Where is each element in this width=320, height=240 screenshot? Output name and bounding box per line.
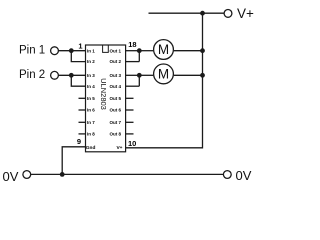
wire out3 (126, 74, 140, 76)
svg-text:Out 7: Out 7 (109, 120, 121, 125)
svg-text:In 4: In 4 (87, 84, 95, 89)
svg-text:Pin 1: Pin 1 (19, 45, 45, 57)
terminal Pin 1 (51, 47, 59, 55)
motor M2 (154, 64, 174, 84)
svg-text:Out 3: Out 3 (109, 73, 121, 78)
svg-text:M: M (158, 67, 169, 82)
svg-text:In 7: In 7 (87, 120, 95, 125)
wire stub out7 (126, 121, 134, 123)
terminal Pin 2 (51, 71, 59, 79)
svg-text:1: 1 (78, 42, 82, 51)
wire stub in8 (79, 133, 86, 135)
node junction motor2 rail (200, 73, 205, 78)
wire 0V rail (31, 173, 224, 175)
svg-text:ULN2803: ULN2803 (99, 78, 108, 110)
wire out3 bar to motor2 (139, 74, 153, 76)
svg-text:Out 4: Out 4 (109, 84, 121, 89)
svg-text:V+: V+ (237, 6, 254, 21)
svg-text:In 6: In 6 (87, 108, 95, 113)
svg-text:Out 6: Out 6 (109, 108, 121, 113)
svg-text:In 2: In 2 (87, 59, 95, 64)
wire out4 (126, 85, 140, 87)
svg-text:In 5: In 5 (87, 96, 95, 101)
wire bar out1-out2 (138, 51, 140, 62)
wire stub in6 (79, 109, 86, 111)
svg-text:Out 2: Out 2 (109, 59, 121, 64)
svg-text:Gnd: Gnd (86, 145, 96, 151)
svg-text:10: 10 (128, 139, 136, 148)
wire V+ rail vertical (126, 13, 203, 148)
svg-text:In 1: In 1 (87, 48, 95, 53)
wire out1 (126, 50, 140, 52)
node junction out3 (137, 73, 142, 78)
svg-text:V+: V+ (116, 145, 122, 151)
node junction pin2 (69, 73, 74, 78)
motor M1 (154, 40, 174, 60)
svg-text:Pin 2: Pin 2 (19, 69, 45, 81)
svg-text:18: 18 (128, 40, 136, 49)
svg-text:Out 1: Out 1 (109, 48, 121, 53)
wire gnd to 0V rail (62, 147, 85, 175)
node junction motor1 rail (200, 48, 205, 53)
svg-text:0V: 0V (3, 169, 19, 184)
wire stub out6 (126, 109, 134, 111)
wire bar out3-out4 (138, 75, 140, 86)
wire pin2 branch to in4 (71, 75, 85, 86)
wire motor2 to rail (174, 74, 203, 76)
wire motor1 to rail (174, 50, 203, 52)
wire pin1 to in1 (58, 50, 85, 52)
wire stub in5 (79, 97, 86, 99)
wire stub out8 (126, 133, 134, 135)
terminal 0V left (23, 171, 31, 179)
node junction top rail (200, 11, 205, 16)
wire stub in7 (79, 121, 86, 123)
op IC U1 ULN2803 body (86, 45, 126, 152)
wire top V+ rail horizontal (149, 12, 225, 14)
wire stub out5 (126, 97, 134, 99)
svg-text:0V: 0V (236, 168, 252, 183)
node junction gnd rail (60, 172, 65, 177)
wire pin2 to in3 (58, 74, 85, 76)
wire out1 bar to motor1 (139, 50, 153, 52)
svg-text:Out 8: Out 8 (109, 132, 121, 137)
svg-text:9: 9 (77, 137, 81, 146)
wire pin1 branch to in2 (71, 51, 85, 62)
wire out2 (126, 61, 140, 63)
node junction pin1 (69, 48, 74, 53)
svg-text:M: M (158, 42, 169, 57)
terminal V+ (224, 10, 232, 18)
IC notch (103, 45, 109, 52)
node junction out1 (137, 48, 142, 53)
svg-text:In 3: In 3 (87, 73, 95, 78)
svg-text:Out 5: Out 5 (109, 96, 121, 101)
terminal 0V right (223, 171, 231, 179)
svg-text:In 8: In 8 (87, 132, 95, 137)
